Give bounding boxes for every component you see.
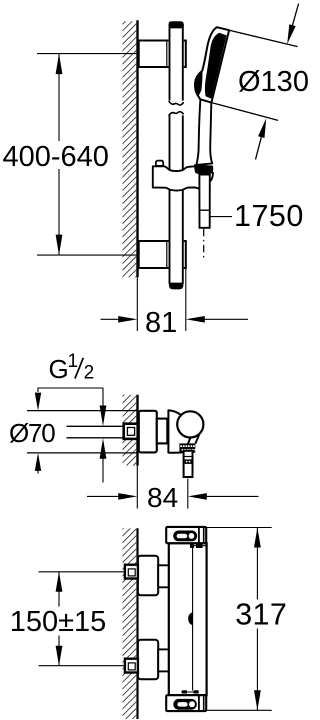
svg-text:2: 2 — [84, 362, 95, 383]
top union connector to body — [158, 565, 169, 587]
mixer escutcheon (side) — [139, 411, 157, 453]
dimension 317 : dimension line and arrows — [256, 528, 258, 600]
transition line head-to-knurl — [195, 433, 199, 444]
bottom cap/escutcheon of body — [166, 695, 206, 711]
union nut at wall (side view) — [124, 424, 138, 439]
bracket inner clamp lines — [166, 42, 168, 67]
dimension 150±15 : dimension line and arrows — [58, 572, 60, 607]
leader line for 1750 — [210, 216, 232, 218]
internal centerline of body — [192, 547, 194, 691]
dimension 317 : extension lines — [204, 527, 272, 529]
hand shower handle tube (flared grip) — [196, 99, 212, 164]
dark spray-plate stripe inside head — [205, 33, 227, 99]
top handle oval (black) with grip — [173, 531, 197, 542]
dimension Ø130 : arrows — [293, 4, 299, 26]
internal top tick and marks — [190, 544, 207, 549]
svg-text:Ø130: Ø130 — [238, 66, 309, 98]
dimension 84 : dimension line with outside arrows — [87, 495, 119, 497]
dimension 81 : dimension line with outside arrows — [101, 318, 120, 320]
bottom S-union block — [138, 640, 158, 680]
G1/2 leader line — [38, 387, 104, 389]
knurled ring under head — [179, 443, 196, 452]
dimension 81 : right extension line — [185, 269, 187, 331]
svg-text:84: 84 — [147, 482, 178, 513]
slide bar (rail) — [169, 24, 184, 284]
mixer neck block — [157, 419, 168, 444]
dimension Ø130 : face extension lines — [217, 27, 298, 46]
hose centerline (dash-dot) — [203, 229, 205, 261]
extension line: wall face continues down (left ext of dim 81) — [136, 277, 138, 331]
bottom union connector to body — [158, 649, 169, 671]
supply pipe behind wall — [67, 425, 124, 427]
shower outlet tube — [184, 451, 193, 477]
glide holder body on rail — [153, 166, 204, 190]
holder cup right edge to hose — [210, 172, 213, 181]
bottom wall bracket of slide bar — [139, 241, 186, 268]
svg-text:81: 81 — [145, 307, 177, 339]
dark grip bump on head back — [195, 71, 202, 97]
top cap/escutcheon of body — [166, 527, 206, 543]
mixer lever ball head — [177, 411, 203, 437]
safety stop button (half disc on centerline) — [188, 612, 192, 625]
top S-union block — [138, 556, 158, 596]
dimension Ø70 : arrows at x=38 — [37, 388, 39, 392]
rail top end cap — [169, 21, 184, 28]
svg-text:G: G — [49, 354, 69, 384]
bottom union nut at wall — [125, 659, 138, 673]
outlet centerline / right extension of dim 84 — [187, 479, 189, 509]
thread label G 1/2 — [49, 351, 95, 384]
top union nut at wall — [125, 565, 138, 579]
dimension Ø70 : extension lines — [27, 410, 137, 412]
wall (middle section) — [123, 395, 138, 466]
wall (top view section) — [123, 20, 138, 277]
mixer horn/cone — [168, 410, 190, 452]
bottom handle oval (black) with grip — [173, 699, 197, 710]
holder cup (handle socket, black) — [194, 164, 213, 175]
thermostat body (front view) — [169, 543, 207, 695]
hand shower head (side view) — [195, 27, 229, 102]
svg-text:Ø70: Ø70 — [9, 418, 55, 448]
rail break symbol — [167, 101, 185, 116]
dimension 400-640 : dimension line and arrows — [58, 54, 60, 141]
svg-text:317: 317 — [235, 598, 287, 632]
dimension 400-640 : extension lines — [37, 53, 137, 55]
svg-text:150±15: 150±15 — [10, 606, 107, 638]
extension line: wall face continues down (left ext of dim 84) — [136, 466, 138, 509]
internal bottom tick and marks — [181, 690, 199, 693]
svg-text:400-640: 400-640 — [3, 141, 109, 173]
dimension 150±15 : extension lines — [39, 571, 125, 573]
rail bottom end cap — [169, 283, 184, 290]
svg-text:1750: 1750 — [234, 199, 304, 233]
hose tube and connection nut — [199, 175, 209, 228]
svg-text:1: 1 — [68, 351, 79, 372]
wall (bottom section) — [123, 528, 138, 719]
G1/2 measuring arrows at x=103 (pipe) — [102, 388, 104, 406]
top wall bracket of slide bar — [139, 41, 186, 68]
holder release knob — [156, 161, 163, 166]
